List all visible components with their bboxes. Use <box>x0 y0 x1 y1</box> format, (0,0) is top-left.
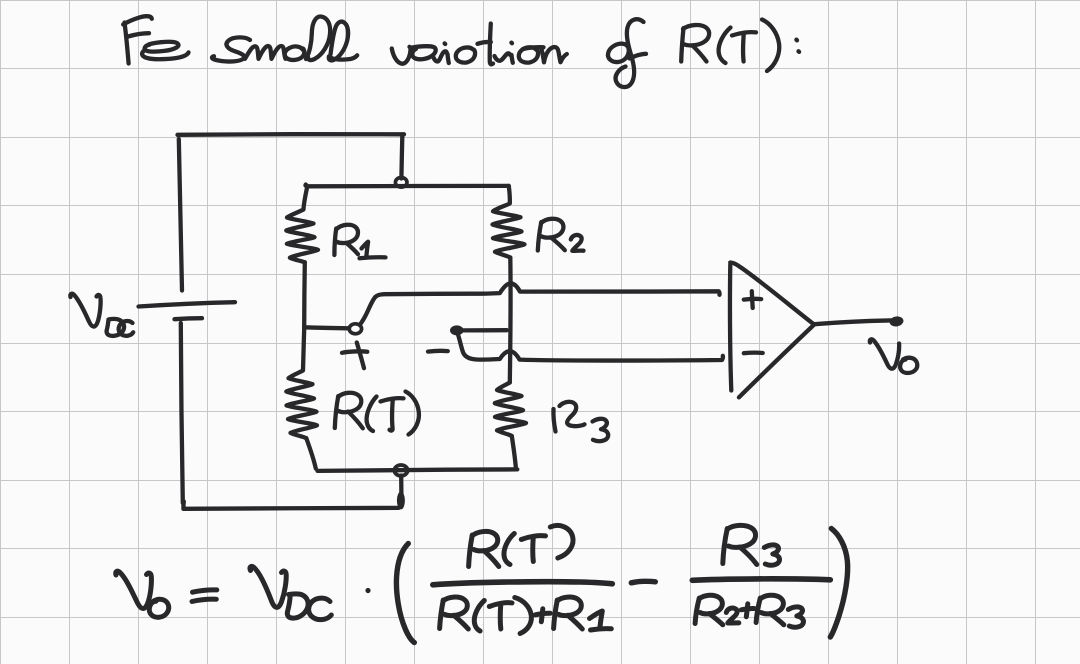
word "small" <box>212 37 250 61</box>
wire bridge top <box>306 185 509 187</box>
wire right drop from top rail <box>399 137 404 179</box>
wire left vertical upper <box>179 139 182 291</box>
formula equals <box>193 590 217 592</box>
battery short plate <box>175 318 203 319</box>
wire R1 bottom lead <box>302 262 307 327</box>
word "For" <box>125 23 129 64</box>
node bridge left mid <box>349 324 361 334</box>
label VDC <box>70 294 133 336</box>
op-amp left edge <box>730 265 731 391</box>
wire top rail <box>178 132 405 137</box>
wire bottom node drop <box>399 476 404 507</box>
wire op-amp minus input <box>458 335 723 361</box>
label minus near tap <box>428 349 448 354</box>
label Vo <box>870 339 917 373</box>
wire op-amp output <box>814 320 891 324</box>
wire minus tap horizontal <box>464 328 507 332</box>
wire mid-left to node <box>304 327 349 328</box>
formula numerator R3 <box>723 529 728 564</box>
resistor R1 <box>286 189 318 262</box>
label R1 <box>334 225 385 259</box>
resistor R2 <box>493 186 525 258</box>
formula cdot <box>365 588 370 593</box>
formula fraction bar 1 <box>433 582 613 585</box>
op-amp top edge <box>730 262 814 324</box>
formula denominator R(T)+R1 <box>440 600 444 629</box>
formula Vo = VDC * ( R(T)/(R(T)+R1) - R3/(R2+R3) ) <box>116 525 848 642</box>
label plus near node <box>342 343 367 369</box>
resistor RT <box>286 329 317 438</box>
node top bridge junction <box>395 178 407 188</box>
wire left vertical lower <box>181 323 183 503</box>
op-amp minus pin label <box>744 351 763 356</box>
op-amp U1 <box>730 262 814 397</box>
wire bridge bottom <box>318 469 518 471</box>
resistor R3 <box>495 383 526 437</box>
formula numerator R(T) <box>469 535 473 567</box>
label R3 <box>553 402 608 441</box>
"R(T):" <box>681 28 683 62</box>
op-amp bottom edge <box>739 325 814 398</box>
formula minus <box>631 581 655 583</box>
label RT <box>335 392 419 435</box>
battery long plate <box>139 302 236 306</box>
wire op-amp plus input <box>360 283 720 325</box>
wire bottom rail <box>183 502 398 509</box>
terminal Vo dot <box>889 315 904 327</box>
junction blob bottom <box>397 492 405 510</box>
title text "For small variation of R(T):" <box>123 16 799 87</box>
wire RT bottom lead <box>306 438 316 468</box>
formula denominator R2+R3 <box>695 598 699 624</box>
wire R2 to R3 vertical <box>508 258 513 383</box>
node minus tap dot <box>450 325 464 335</box>
battery VDC <box>139 302 236 319</box>
op-amp plus pin label <box>744 297 761 302</box>
word "variation" <box>392 47 411 64</box>
formula open paren <box>396 544 414 643</box>
formula close paren <box>830 529 847 638</box>
wire R3 bottom lead <box>512 436 516 467</box>
formula Vo <box>116 571 152 608</box>
formula VDC <box>250 566 286 607</box>
label R2 <box>538 219 584 251</box>
formula fraction bar 2 <box>692 579 830 580</box>
node bridge bottom junction <box>394 465 407 476</box>
word "of" <box>608 44 629 62</box>
